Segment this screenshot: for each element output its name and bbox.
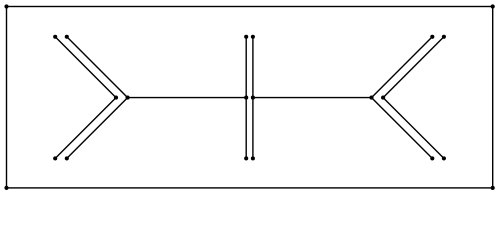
wire: right lower outer diagonal xyxy=(372,98,435,161)
wire: right upper inner diagonal xyxy=(383,35,446,98)
wire: left upper inner diagonal xyxy=(53,35,116,98)
node C: right feed junction xyxy=(369,96,373,100)
node B: left feed junction xyxy=(126,96,130,100)
wire: left lower outer diagonal xyxy=(65,98,128,161)
wire: right horizontal feed xyxy=(253,97,372,99)
wire: right upper outer diagonal xyxy=(372,35,435,98)
wire: right lower inner diagonal xyxy=(383,98,446,161)
node A: left inner vertex xyxy=(114,96,118,100)
capacitor C1 right plate xyxy=(251,35,255,161)
node D: right inner vertex xyxy=(381,96,385,100)
wire: left lower inner diagonal xyxy=(53,98,116,161)
capacitor C1 left plate xyxy=(244,35,248,161)
wire: left horizontal feed xyxy=(128,97,247,99)
wire: left upper outer diagonal xyxy=(65,35,128,98)
